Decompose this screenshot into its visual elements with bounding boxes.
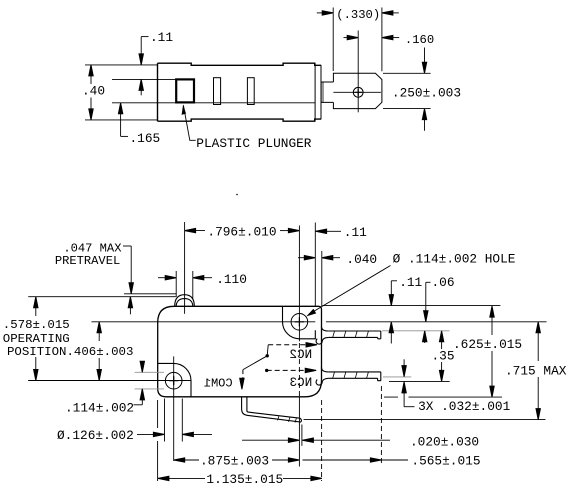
extension line blade tip bottom	[389, 380, 450, 382]
housing end cap separator	[314, 63, 316, 121]
svg-text:.11: .11	[150, 30, 173, 45]
svg-text:.11: .11	[344, 225, 367, 240]
svg-text:.715 MAX: .715 MAX	[505, 364, 567, 379]
dimension .114±.002	[134, 362, 165, 405]
terminal block outline	[333, 73, 382, 108]
terminal NC2 blade	[316, 326, 381, 344]
dimension .11 top	[141, 37, 148, 96]
extension line terminal tip	[301, 425, 303, 446]
svg-text:1.135±.015: 1.135±.015	[206, 472, 283, 487]
leader: plastic plunger label	[183, 105, 195, 140]
dimension 1.135±.015	[158, 477, 321, 479]
extension line terminal bottom	[304, 419, 546, 421]
stray reference dot	[236, 194, 238, 196]
mounting hole H2 bottom left	[165, 372, 182, 389]
hole vertical centerline	[357, 31, 359, 113]
terminal COM bottom	[242, 397, 302, 422]
H1 center cross	[295, 317, 304, 326]
dimension .875±.003	[174, 459, 294, 461]
actuator pin inner dome	[176, 299, 193, 307]
NC2 blade hatch ticks	[333, 331, 369, 337]
svg-text:.020±.030: .020±.030	[410, 435, 479, 450]
svg-text:Ø .114±.002 HOLE: Ø .114±.002 HOLE	[393, 252, 516, 267]
NC3 blade hatch ticks	[333, 372, 369, 378]
free position line B	[28, 296, 176, 298]
dimension .250±.003	[383, 48, 431, 131]
mounting hole H1 top right	[291, 314, 308, 331]
housing seam line lower	[112, 102, 315, 104]
switch body outline	[158, 306, 322, 397]
extension line body top right	[323, 305, 501, 307]
svg-text:.250±.003: .250±.003	[392, 86, 461, 101]
actuator pin outer dome	[175, 295, 195, 307]
hidden extension blade tips	[380, 386, 382, 464]
dimension 3X .032±.001	[404, 359, 414, 406]
housing seam line upper-left	[112, 78, 176, 80]
reference line D (hole centerline plane)	[28, 380, 191, 382]
dimension .11 right of hole	[315, 223, 341, 307]
dimension .796±.010	[185, 222, 296, 314]
plastic plunger window (thick rect)	[176, 79, 194, 102]
svg-text:.40: .40	[82, 83, 105, 98]
H2 center cross	[169, 376, 178, 385]
operating position line C	[92, 321, 316, 323]
terminal block hole	[353, 87, 363, 97]
svg-text:.35: .35	[432, 348, 455, 363]
H1 vertical centerline	[298, 226, 300, 342]
dimension .625±.015	[491, 315, 493, 389]
schematic dashed wire to NC3	[267, 369, 307, 371]
schematic riser wire	[267, 345, 268, 356]
schematic dashed drop to COM arrow	[242, 370, 244, 383]
extension line body left edge	[157, 400, 159, 428]
hidden centerline below body (hole H1)	[298, 343, 300, 397]
extension line blade bottom grey	[383, 376, 411, 378]
svg-text:.565±.015: .565±.015	[411, 454, 480, 469]
svg-text:.040: .040	[346, 252, 377, 267]
dimension .565±.015	[303, 459, 409, 461]
dimension .160	[344, 37, 400, 39]
H1 boss outline	[283, 306, 316, 339]
svg-text:NC2: NC2	[289, 348, 312, 362]
dimension Ø.126±.002	[137, 399, 212, 442]
hole horizontal crosshair	[333, 91, 381, 93]
extension line blade top grey	[382, 330, 450, 332]
hidden extension body right edge	[321, 400, 323, 481]
svg-text:.11: .11	[399, 275, 422, 290]
dimension .578±.015	[35, 306, 37, 371]
svg-text:PLASTIC PLUNGER: PLASTIC PLUNGER	[196, 136, 312, 151]
svg-text:.578±.015: .578±.015	[3, 318, 70, 332]
svg-text:.796±.010: .796±.010	[207, 224, 276, 239]
schematic blade arm wire	[243, 356, 267, 370]
svg-text:OPERATING: OPERATING	[3, 332, 70, 346]
neck between cap and terminal block	[321, 82, 334, 102]
dimension .11 upper right	[391, 281, 397, 344]
housing slot 1	[214, 78, 221, 105]
svg-text:.06: .06	[432, 275, 455, 290]
dimension .020±.030	[242, 439, 294, 441]
H2 boss outline	[158, 363, 191, 396]
svg-text:.110: .110	[216, 272, 247, 287]
svg-text:PRETRAVEL: PRETRAVEL	[55, 254, 120, 268]
dimension .40	[85, 65, 158, 120]
extension line body bottom right	[384, 396, 502, 398]
dimension .35	[441, 340, 443, 373]
schematic dashed wire to NC2	[268, 344, 308, 346]
schematic NC3 node	[265, 369, 268, 372]
svg-text:Ø.126±.002: Ø.126±.002	[57, 428, 134, 443]
svg-text:COM1: COM1	[204, 377, 233, 391]
dimension .040	[298, 251, 340, 306]
housing slot 2	[247, 78, 254, 105]
svg-text:.160: .160	[405, 33, 434, 47]
dimension .06	[425, 282, 431, 343]
svg-text:NC3: NC3	[290, 376, 313, 390]
leader Ø.114±.002 HOLE	[309, 266, 391, 315]
plunger housing body outline	[158, 63, 322, 121]
internal schematic: common pivot node	[266, 354, 269, 357]
svg-text:.165: .165	[130, 131, 161, 146]
svg-text:3X .032±.001: 3X .032±.001	[418, 399, 510, 414]
dimension .715 MAX	[537, 331, 539, 412]
dimension .406±.003	[98, 331, 100, 372]
dimension (.330)	[317, 8, 399, 72]
COM blade hatch ticks	[278, 416, 297, 422]
grey shaft shading at cap	[322, 82, 324, 103]
terminal NC3 blade	[316, 367, 381, 385]
svg-text:.625±.015: .625±.015	[453, 337, 522, 352]
svg-text:POSITION.406±.003: POSITION.406±.003	[7, 345, 133, 359]
housing end cap right edge	[320, 65, 322, 119]
dimension .110	[158, 271, 212, 299]
svg-text:.875±.003: .875±.003	[200, 454, 269, 469]
dimension .047 MAX PRETRAVEL	[123, 246, 131, 314]
dimension .165	[121, 112, 128, 137]
svg-text:.114±.002: .114±.002	[65, 401, 134, 416]
free position line A	[124, 293, 177, 295]
H2 vertical centerline	[173, 356, 175, 461]
svg-text:(.330): (.330)	[336, 8, 380, 22]
